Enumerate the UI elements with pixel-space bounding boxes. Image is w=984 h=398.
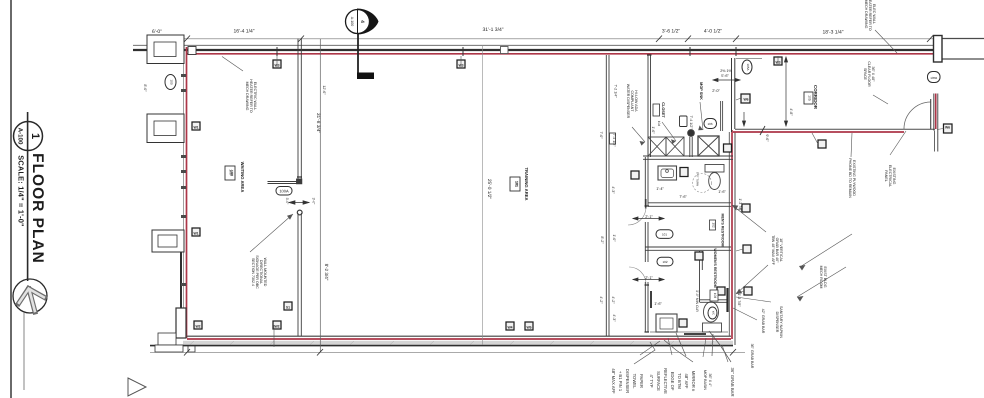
svg-text:A-100: A-100 <box>350 17 354 27</box>
svg-text:REFLECTIVE: REFLECTIVE <box>663 368 668 394</box>
svg-text:4'-2": 4'-2" <box>611 296 615 304</box>
svg-text:8'-2 3/4": 8'-2 3/4" <box>324 264 329 281</box>
svg-text:WAITING AREA: WAITING AREA <box>240 162 245 193</box>
svg-text:+ B1 PIN 1: + B1 PIN 1 <box>618 371 623 392</box>
svg-text:A-100: A-100 <box>16 128 23 145</box>
svg-text:105B: 105B <box>930 76 937 80</box>
svg-text:103: 103 <box>713 293 717 299</box>
svg-text:6'-0": 6'-0" <box>152 29 162 35</box>
svg-text:WATER DISPENSER: WATER DISPENSER <box>626 84 630 119</box>
svg-text:104: 104 <box>657 121 661 127</box>
svg-text:31'-8 3/4": 31'-8 3/4" <box>315 113 321 134</box>
svg-text:MOP BASIN: MOP BASIN <box>703 370 707 390</box>
svg-text:W2: W2 <box>274 325 279 329</box>
svg-text:5'-0" TURN: 5'-0" TURN <box>696 172 700 186</box>
svg-text:SCALE: 1/4" = 1'-0": SCALE: 1/4" = 1'-0" <box>17 155 26 227</box>
svg-text:18'-3 1/4": 18'-3 1/4" <box>822 30 843 36</box>
svg-text:PHONE BD TO REMAIN: PHONE BD TO REMAIN <box>848 158 852 198</box>
svg-text:1'-4": 1'-4" <box>656 187 664 191</box>
svg-text:12'-6": 12'-6" <box>322 85 326 95</box>
svg-text:WC: WC <box>712 311 715 315</box>
svg-text:W5: W5 <box>526 326 531 330</box>
svg-text:2% 1%: 2% 1% <box>720 69 732 73</box>
svg-text:7'-4 1/2": 7'-4 1/2" <box>612 133 616 147</box>
svg-text:W6: W6 <box>945 126 950 130</box>
svg-text:MECH DRAWING: MECH DRAWING <box>864 0 868 29</box>
svg-text:1'-3 7/8": 1'-3 7/8" <box>738 198 742 212</box>
svg-text:100: 100 <box>229 169 233 175</box>
svg-text:4: 4 <box>359 20 365 23</box>
svg-text:W2: W2 <box>195 325 200 329</box>
svg-text:106: 106 <box>707 122 712 126</box>
svg-text:7'-6": 7'-6" <box>679 195 687 199</box>
svg-text:MOP SNK: MOP SNK <box>699 82 703 100</box>
svg-text:DISPENSER: DISPENSER <box>775 312 779 333</box>
svg-text:1'-6": 1'-6" <box>654 302 662 306</box>
svg-text:36" GRAB BAR: 36" GRAB BAR <box>750 344 754 369</box>
svg-text:MIRROR #: MIRROR # <box>691 371 696 392</box>
svg-text:1'-3 7/8": 1'-3 7/8" <box>737 293 741 307</box>
svg-text:101: 101 <box>515 181 519 187</box>
svg-text:W6: W6 <box>743 98 748 102</box>
svg-text:3'-6 1/2": 3'-6 1/2" <box>662 29 681 35</box>
svg-text:7'-4 1/2": 7'-4 1/2" <box>689 115 693 129</box>
svg-text:1: 1 <box>29 133 41 139</box>
svg-text:25'-0 1/2": 25'-0 1/2" <box>486 179 492 200</box>
svg-text:105: 105 <box>808 95 812 101</box>
svg-text:100: 100 <box>170 79 174 84</box>
svg-text:W1: W1 <box>193 126 198 130</box>
svg-text:W1: W1 <box>193 232 198 236</box>
svg-text:36" X 4": 36" X 4" <box>708 374 712 388</box>
svg-text:100A: 100A <box>279 188 289 193</box>
svg-text:4'-3": 4'-3" <box>612 314 616 322</box>
svg-text:PANEL: PANEL <box>884 170 888 182</box>
svg-text:31'-1 3/4": 31'-1 3/4" <box>482 27 503 33</box>
svg-text:3'-0": 3'-0" <box>312 198 316 206</box>
svg-text:4" TYP: 4" TYP <box>649 374 654 387</box>
svg-text:MEN'S RESTROOM: MEN'S RESTROOM <box>721 213 725 246</box>
svg-text:PAPER: PAPER <box>639 374 644 388</box>
svg-text:4'-8": 4'-8" <box>789 108 793 116</box>
svg-text:SECTION 7302.4: SECTION 7302.4 <box>251 258 255 286</box>
svg-text:TOWEL: TOWEL <box>632 374 637 389</box>
svg-text:W4: W4 <box>507 326 512 330</box>
svg-text:DISPENSER: DISPENSER <box>625 369 630 393</box>
svg-text:SURFACE: SURFACE <box>656 371 661 391</box>
svg-text:36" GRAB BAR: 36" GRAB BAR <box>730 368 735 397</box>
svg-text:CORRIDOR: CORRIDOR <box>813 85 818 110</box>
svg-text:3'-0": 3'-0" <box>285 198 289 206</box>
svg-text:1'-6": 1'-6" <box>718 190 726 194</box>
svg-text:4'-2": 4'-2" <box>599 296 603 304</box>
svg-text:MECH DRAWING: MECH DRAWING <box>245 82 249 111</box>
svg-text:TBN 48" MAX AFF: TBN 48" MAX AFF <box>771 235 775 266</box>
svg-text:S1: S1 <box>286 306 290 310</box>
svg-text:2'-0": 2'-0" <box>712 89 720 93</box>
svg-text:8'-0": 8'-0" <box>143 84 147 92</box>
svg-text:4'-3": 4'-3" <box>611 186 615 194</box>
svg-text:CLOSET: CLOSET <box>661 102 665 118</box>
svg-text:102: 102 <box>662 260 667 264</box>
svg-text:5'-6": 5'-6" <box>721 74 729 78</box>
svg-text:3'-0" MIN CLR: 3'-0" MIN CLR <box>695 290 699 312</box>
svg-text:48" MAX AFF: 48" MAX AFF <box>611 368 616 394</box>
svg-text:42" GRAB BAR: 42" GRAB BAR <box>761 309 765 334</box>
svg-text:WOMEN'S RESTROOM: WOMEN'S RESTROOM <box>713 248 717 287</box>
svg-text:102: 102 <box>712 222 716 228</box>
svg-text:8'-2": 8'-2" <box>600 236 604 244</box>
svg-text:SPACE: SPACE <box>863 68 867 81</box>
svg-text:101: 101 <box>662 233 667 237</box>
svg-text:TO BTM: TO BTM <box>677 373 682 389</box>
svg-text:TRAINING AREA: TRAINING AREA <box>524 167 529 200</box>
svg-text:4'-0 1/2": 4'-0 1/2" <box>704 29 723 35</box>
svg-text:MECH ROOM: MECH ROOM <box>819 266 823 289</box>
svg-text:16'-4 1/4": 16'-4 1/4" <box>233 29 254 35</box>
svg-text:EDGE OF: EDGE OF <box>670 372 675 391</box>
svg-text:9'-6": 9'-6" <box>765 134 769 142</box>
svg-text:1'-6": 1'-6" <box>651 126 655 134</box>
svg-text:7'-2 1/4": 7'-2 1/4" <box>614 84 618 98</box>
svg-text:7'-0": 7'-0" <box>599 131 603 139</box>
svg-text:1'-0": 1'-0" <box>612 234 616 242</box>
svg-text:FLOOR PLAN: FLOOR PLAN <box>29 153 46 264</box>
svg-text:105A: 105A <box>746 63 750 70</box>
svg-text:48" AFF: 48" AFF <box>684 374 689 389</box>
